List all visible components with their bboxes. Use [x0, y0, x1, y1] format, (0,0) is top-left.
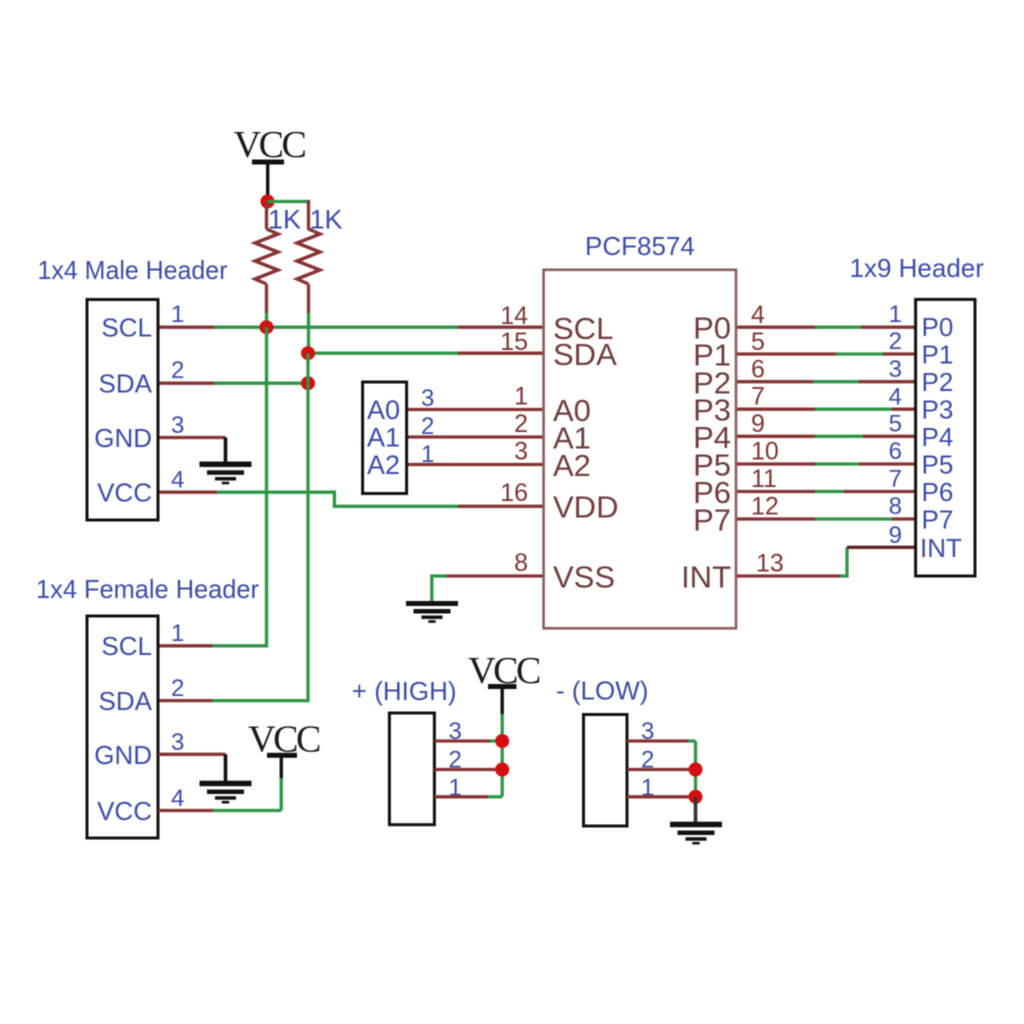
svg-text:- (LOW): - (LOW) — [556, 676, 648, 706]
svg-text:4: 4 — [751, 301, 765, 329]
wire LOW drop to ground — [694, 797, 698, 822]
svg-text:3: 3 — [171, 412, 184, 439]
svg-text:1K: 1K — [310, 205, 343, 235]
svg-text:9: 9 — [889, 522, 902, 549]
wire P2 net chip pin6 to header pin3 — [736, 380, 916, 383]
connector J2 1x4 Female Header box — [87, 616, 158, 838]
connector jumper HIGH box — [389, 713, 434, 825]
node HIGH dot pin2 — [495, 763, 509, 777]
svg-text:P3: P3 — [922, 395, 954, 425]
svg-text:1: 1 — [421, 441, 434, 468]
svg-text:+ (HIGH): + (HIGH) — [352, 676, 457, 706]
svg-text:GND: GND — [94, 740, 152, 770]
wire A0 to chip pin 1 — [407, 408, 544, 411]
svg-text:A2: A2 — [553, 448, 591, 483]
node SDA junction dot (upper) — [301, 346, 315, 360]
wire LOW pin2 — [627, 768, 696, 771]
wire net SDA: junction to PCF8574 pin 15 — [308, 352, 544, 355]
svg-text:P6: P6 — [922, 477, 954, 507]
svg-text:P5: P5 — [922, 450, 954, 480]
svg-text:SDA: SDA — [99, 686, 153, 716]
svg-text:10: 10 — [751, 438, 779, 466]
svg-text:13: 13 — [756, 550, 784, 578]
wire female GND drop — [224, 754, 228, 781]
node SDA junction dot (lower) — [301, 376, 315, 390]
connector jumper LOW box — [584, 715, 628, 827]
node LOW dot pin1 — [689, 790, 703, 804]
svg-text:SDA: SDA — [99, 369, 153, 399]
svg-text:SDA: SDA — [553, 337, 617, 372]
svg-text:4: 4 — [171, 467, 184, 494]
node SCL junction dot — [260, 320, 274, 334]
svg-text:SCL: SCL — [101, 631, 152, 661]
svg-text:8: 8 — [889, 493, 902, 520]
svg-text:2: 2 — [171, 357, 184, 384]
svg-text:4: 4 — [171, 785, 184, 812]
ground (male header) — [200, 462, 252, 485]
svg-text:3: 3 — [171, 729, 184, 756]
wire P5 net chip pin10 to header pin6 — [736, 462, 916, 465]
ground (female header) — [200, 781, 252, 804]
svg-text:A1: A1 — [367, 423, 400, 453]
wire net VSS: ground to PCF8574 pin 8 — [432, 576, 544, 602]
svg-text:2: 2 — [889, 328, 902, 355]
svg-text:P0: P0 — [922, 312, 954, 342]
node LOW dot pin2 — [689, 763, 703, 777]
wire VCC junction to R2 top — [268, 200, 310, 203]
connector J1 1x4 Male Header box — [87, 300, 158, 521]
IC U1 PCF8574 box — [544, 270, 736, 629]
connector J3 1x9 Header box — [916, 299, 975, 576]
svg-text:1x4 Male Header: 1x4 Male Header — [38, 255, 228, 285]
svg-text:1K: 1K — [268, 205, 301, 235]
power symbol VCC (HIGH jumper) — [468, 650, 540, 715]
svg-text:2: 2 — [421, 413, 434, 440]
wire INT net chip pin13 to header pin9 — [736, 547, 916, 576]
svg-text:GND: GND — [94, 423, 152, 453]
power symbol VCC (top) — [234, 124, 306, 199]
svg-text:1: 1 — [171, 301, 184, 328]
svg-text:5: 5 — [751, 328, 765, 356]
svg-text:INT: INT — [920, 533, 962, 563]
svg-text:5: 5 — [889, 411, 902, 438]
svg-text:P7: P7 — [922, 505, 954, 535]
wire SCL vertical drop to female header — [212, 327, 267, 646]
wire P7 net chip pin12 to header pin8 — [736, 517, 916, 520]
svg-text:1: 1 — [171, 620, 184, 647]
svg-text:PCF8574: PCF8574 — [585, 231, 695, 261]
svg-text:VSS: VSS — [553, 560, 615, 595]
wire LOW pin3 — [627, 739, 696, 742]
ground (LOW jumper) — [670, 822, 722, 845]
wire P0 net chip pin4 to header pin1 — [736, 326, 916, 329]
wire HIGH pin1 — [435, 795, 503, 798]
connector A-select box (A0 A1 A2) — [363, 382, 407, 494]
svg-text:2: 2 — [514, 410, 528, 438]
svg-text:SCL: SCL — [101, 313, 152, 343]
svg-text:7: 7 — [751, 383, 765, 411]
wire P4 net chip pin9 to header pin5 — [736, 435, 916, 438]
svg-text:14: 14 — [500, 302, 528, 330]
wire net SCL: male header to PCF8574 pin 14 — [158, 326, 544, 329]
power symbol VCC (female header) — [248, 719, 320, 779]
wire HIGH pin2 — [435, 768, 498, 771]
svg-text:4: 4 — [889, 384, 902, 411]
svg-text:1x9 Header: 1x9 Header — [850, 253, 985, 283]
svg-text:2: 2 — [171, 675, 184, 702]
svg-text:1: 1 — [889, 301, 902, 328]
wire LOW vertical ground rail — [694, 741, 697, 797]
svg-text:A0: A0 — [367, 395, 400, 425]
wire male GND stub — [158, 436, 226, 439]
svg-text:INT: INT — [681, 560, 731, 595]
svg-text:1x4 Female Header: 1x4 Female Header — [36, 574, 259, 604]
resistor R1 1K — [255, 202, 278, 328]
wire net VCC: male header pin4 to PCF8574 VDD — [158, 492, 544, 506]
wire HIGH vertical VCC rail — [501, 714, 504, 797]
svg-text:P1: P1 — [922, 340, 954, 370]
svg-text:3: 3 — [889, 356, 902, 383]
node VCC junction dot — [261, 195, 275, 209]
wire HIGH pin3 — [435, 739, 503, 742]
svg-text:P4: P4 — [922, 422, 954, 452]
svg-text:1: 1 — [514, 383, 528, 411]
wire A1 to chip pin 2 — [407, 435, 544, 438]
ground (VSS) — [406, 601, 458, 623]
svg-text:7: 7 — [889, 466, 902, 493]
wire P3 net chip pin7 to header pin4 — [736, 408, 916, 411]
wire LOW pin1 — [627, 795, 696, 798]
svg-text:6: 6 — [889, 438, 902, 465]
wire female GND stub — [158, 753, 225, 756]
svg-text:A2: A2 — [367, 450, 400, 480]
wire female SCL stub — [158, 644, 212, 647]
wire P6 net chip pin11 to header pin7 — [736, 490, 916, 493]
svg-text:8: 8 — [514, 549, 528, 577]
svg-text:VDD: VDD — [553, 490, 618, 525]
wire P1 net chip pin5 to header pin2 — [736, 352, 916, 355]
svg-text:16: 16 — [500, 479, 528, 507]
svg-text:11: 11 — [751, 465, 777, 493]
svg-text:3: 3 — [421, 385, 434, 412]
wire female SDA stub — [158, 699, 212, 702]
svg-text:3: 3 — [514, 438, 528, 466]
wire male SDA stub to junction — [158, 382, 308, 385]
svg-text:P7: P7 — [693, 503, 731, 538]
svg-text:12: 12 — [751, 493, 779, 521]
svg-text:15: 15 — [500, 328, 528, 356]
svg-text:6: 6 — [751, 356, 765, 384]
resistor R2 1K — [297, 229, 320, 353]
svg-text:VCC: VCC — [97, 796, 152, 826]
svg-text:P2: P2 — [922, 367, 954, 397]
wire male GND drop — [224, 438, 228, 463]
svg-text:9: 9 — [751, 410, 765, 438]
svg-text:VCC: VCC — [97, 478, 152, 508]
node HIGH dot pin3 — [495, 734, 509, 748]
wire A2 to chip pin 3 — [407, 463, 544, 466]
wire SDA vertical drop to female header — [212, 353, 308, 700]
wire female VCC net — [158, 778, 281, 811]
